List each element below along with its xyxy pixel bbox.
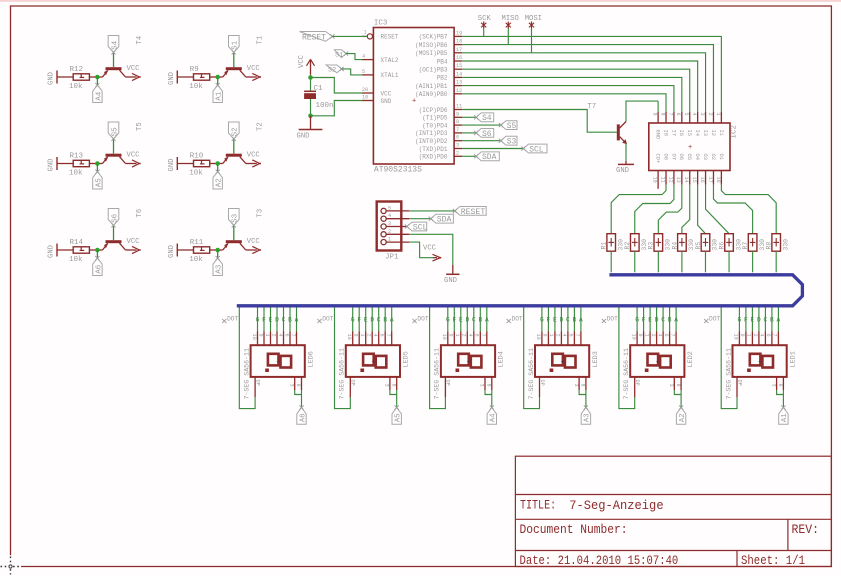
svg-text:D: D	[655, 316, 659, 323]
svg-text:6: 6	[675, 113, 681, 116]
svg-text:E: E	[648, 316, 652, 323]
svg-text:A2: A2	[679, 413, 687, 422]
svg-text:7: 7	[290, 334, 296, 337]
svg-text:10: 10	[535, 334, 541, 340]
svg-text:DP: DP	[350, 380, 356, 386]
svg-text:SCL: SCL	[413, 223, 428, 232]
svg-text:GND: GND	[168, 159, 176, 172]
svg-text:R12: R12	[70, 66, 84, 74]
svg-text:9: 9	[448, 334, 454, 337]
svg-text:E: E	[459, 316, 463, 323]
svg-text:10: 10	[652, 177, 658, 183]
svg-text:S4: S4	[111, 40, 119, 50]
svg-text:8: 8	[777, 384, 783, 387]
svg-text:DP: DP	[539, 380, 545, 386]
svg-text:A: A	[777, 316, 781, 323]
svg-text:S6: S6	[482, 130, 492, 139]
svg-text:(T1)PD5: (T1)PD5	[422, 115, 448, 122]
svg-text:O4: O4	[694, 154, 700, 160]
svg-text:12: 12	[667, 177, 673, 183]
svg-text:1: 1	[548, 334, 554, 337]
svg-text:VCC: VCC	[247, 238, 261, 246]
svg-text:1: 1	[746, 334, 752, 337]
svg-text:R1: R1	[601, 242, 608, 250]
svg-text:7-SEG SA56-11: 7-SEG SA56-11	[528, 348, 535, 399]
svg-text:F: F	[262, 316, 266, 323]
svg-text:8: 8	[456, 119, 459, 125]
svg-text:10: 10	[733, 334, 739, 340]
svg-text:E: E	[751, 316, 755, 323]
svg-text:F: F	[357, 316, 361, 323]
svg-text:+: +	[276, 359, 279, 365]
svg-text:B: B	[478, 316, 482, 323]
svg-text:R4: R4	[671, 242, 678, 250]
svg-text:7: 7	[772, 334, 778, 337]
svg-text:VCC: VCC	[247, 65, 261, 73]
svg-text:GND: GND	[381, 98, 392, 105]
svg-text:(INT0)PD2: (INT0)PD2	[415, 138, 448, 145]
svg-text:2: 2	[752, 334, 758, 337]
svg-text:C: C	[661, 316, 665, 323]
svg-text:4: 4	[372, 334, 378, 337]
svg-text:1: 1	[454, 334, 460, 337]
svg-text:11: 11	[456, 104, 462, 110]
svg-text:C: C	[764, 316, 768, 323]
svg-text:A6: A6	[299, 413, 307, 422]
svg-text:TITLE:: TITLE:	[520, 498, 556, 513]
svg-text:3: 3	[384, 384, 390, 387]
svg-text:9: 9	[456, 111, 459, 117]
svg-text:2: 2	[707, 113, 713, 116]
svg-text:A6: A6	[95, 264, 103, 274]
svg-text:DOT: DOT	[512, 315, 523, 322]
svg-text:6: 6	[663, 334, 669, 337]
svg-text:T2: T2	[256, 122, 264, 131]
svg-text:7: 7	[667, 113, 673, 116]
svg-text:DP: DP	[445, 380, 451, 386]
svg-text:S4: S4	[482, 114, 492, 123]
svg-text:SCK: SCK	[478, 15, 492, 23]
svg-text:6: 6	[568, 334, 574, 337]
svg-text:16: 16	[699, 177, 705, 183]
svg-text:+: +	[758, 359, 761, 365]
svg-text:+: +	[656, 359, 659, 365]
svg-text:4: 4	[277, 334, 283, 337]
svg-text:B: B	[573, 316, 577, 323]
svg-text:R6: R6	[718, 242, 725, 250]
svg-text:B: B	[668, 316, 672, 323]
svg-text:I6: I6	[678, 130, 684, 136]
svg-text:DP: DP	[634, 380, 640, 386]
svg-text:10: 10	[362, 95, 368, 101]
svg-text:GND: GND	[48, 159, 56, 172]
svg-text:XTAL1: XTAL1	[381, 72, 399, 79]
svg-text:(INT1)PD3: (INT1)PD3	[415, 130, 448, 137]
svg-text:S2: S2	[232, 127, 240, 137]
svg-text:C: C	[566, 316, 570, 323]
svg-text:10: 10	[346, 334, 352, 340]
svg-text:O7: O7	[670, 154, 676, 160]
svg-text:LED5: LED5	[403, 351, 411, 367]
svg-text:S1: S1	[232, 40, 240, 50]
svg-text:10k: 10k	[189, 170, 203, 178]
svg-text:1: 1	[364, 30, 367, 36]
svg-text:VCC: VCC	[127, 238, 141, 246]
svg-text:I5: I5	[686, 130, 692, 136]
svg-text:7-SEG SA56-11: 7-SEG SA56-11	[623, 348, 630, 399]
svg-text:A4: A4	[95, 91, 103, 101]
svg-text:I4: I4	[694, 130, 700, 136]
svg-text:D: D	[275, 316, 279, 323]
svg-text:5: 5	[388, 205, 391, 211]
svg-text:R13: R13	[70, 153, 84, 161]
svg-text:7: 7	[480, 334, 486, 337]
svg-text:R7: R7	[742, 242, 749, 250]
svg-text:E: E	[269, 316, 273, 323]
svg-text:(ICP)PD6: (ICP)PD6	[419, 107, 448, 114]
svg-text:R8: R8	[766, 242, 773, 250]
svg-text:VCC: VCC	[247, 152, 261, 160]
svg-text:7-SEG SA56-11: 7-SEG SA56-11	[243, 348, 250, 399]
svg-text:+: +	[412, 98, 416, 106]
svg-text:T7: T7	[588, 103, 597, 111]
svg-text:T5: T5	[136, 122, 144, 131]
svg-text:S6: S6	[111, 213, 119, 223]
svg-text:2: 2	[456, 150, 459, 156]
svg-text:R2: R2	[624, 242, 631, 250]
svg-text:7-SEG SA56-11: 7-SEG SA56-11	[434, 348, 441, 399]
svg-text:6: 6	[283, 334, 289, 337]
svg-text:LED1: LED1	[789, 351, 797, 367]
svg-text:DP: DP	[736, 380, 742, 386]
svg-text:10k: 10k	[69, 170, 83, 178]
svg-text:E: E	[553, 316, 557, 323]
svg-text:1: 1	[264, 334, 270, 337]
svg-text:A: A	[579, 316, 583, 323]
svg-text:R11: R11	[190, 239, 204, 247]
svg-text:C: C	[282, 316, 286, 323]
svg-text:8: 8	[486, 384, 492, 387]
svg-text:S1: S1	[335, 51, 343, 59]
svg-text:DP: DP	[254, 380, 260, 386]
svg-text:A5: A5	[95, 178, 103, 188]
svg-text:G: G	[540, 316, 544, 323]
svg-text:E: E	[364, 316, 368, 323]
svg-text:PB2: PB2	[437, 75, 448, 82]
svg-text:7: 7	[669, 334, 675, 337]
svg-text:(AIN1)PB1: (AIN1)PB1	[415, 83, 448, 90]
svg-text:7-SEG SA56-11: 7-SEG SA56-11	[339, 348, 346, 399]
svg-text:RESET: RESET	[302, 33, 326, 42]
svg-text:O2: O2	[710, 154, 716, 160]
svg-text:A3: A3	[216, 264, 224, 274]
svg-text:(OC1)PB3: (OC1)PB3	[419, 67, 448, 74]
svg-text:8: 8	[295, 384, 301, 387]
svg-text:A: A	[390, 316, 394, 323]
svg-text:DOT: DOT	[227, 315, 238, 322]
svg-text:20: 20	[362, 87, 368, 93]
svg-text:O1: O1	[718, 154, 724, 160]
svg-text:17: 17	[707, 177, 713, 183]
svg-text:6: 6	[474, 334, 480, 337]
svg-text:O8: O8	[662, 154, 668, 160]
svg-text:SCL: SCL	[529, 145, 544, 154]
svg-text:(TXD)PD1: (TXD)PD1	[419, 146, 448, 153]
svg-text:A: A	[485, 316, 489, 323]
svg-text:Date: 21.04.2010 15:07:40: Date: 21.04.2010 15:07:40	[520, 553, 679, 568]
svg-text:F: F	[642, 316, 646, 323]
svg-text:9: 9	[542, 334, 548, 337]
svg-text:IC2: IC2	[731, 125, 739, 139]
svg-text:GND: GND	[655, 130, 661, 140]
svg-text:Sheet: 1/1: Sheet: 1/1	[741, 553, 805, 568]
svg-text:GND: GND	[168, 72, 176, 85]
svg-text:IC3: IC3	[374, 20, 388, 28]
svg-text:3: 3	[479, 384, 485, 387]
svg-text:2: 2	[555, 334, 561, 337]
svg-text:10k: 10k	[189, 256, 203, 264]
svg-text:RESET: RESET	[381, 34, 399, 41]
svg-text:PB4: PB4	[437, 58, 448, 65]
svg-text:VCC: VCC	[423, 245, 437, 253]
svg-text:12: 12	[456, 88, 462, 94]
svg-text:3: 3	[770, 384, 776, 387]
svg-text:G: G	[635, 316, 639, 323]
svg-text:18: 18	[456, 39, 462, 45]
svg-text:B: B	[288, 316, 292, 323]
svg-text:C1: C1	[314, 85, 324, 93]
svg-text:I7: I7	[670, 130, 676, 136]
svg-text:JP1: JP1	[385, 254, 399, 262]
svg-text:S3: S3	[507, 138, 517, 147]
svg-text:O6: O6	[678, 154, 684, 160]
svg-text:13: 13	[456, 80, 462, 86]
svg-text:14: 14	[456, 71, 462, 77]
svg-text:GND: GND	[48, 72, 56, 85]
svg-text:F: F	[744, 316, 748, 323]
svg-text:MISO: MISO	[502, 15, 519, 23]
svg-text:8: 8	[675, 384, 681, 387]
svg-text:GND: GND	[616, 167, 629, 175]
svg-text:6: 6	[379, 334, 385, 337]
svg-text:(SCK)PB7: (SCK)PB7	[419, 34, 448, 41]
svg-text:O5: O5	[686, 154, 692, 160]
svg-text:GND: GND	[48, 245, 56, 258]
svg-text:C: C	[377, 316, 381, 323]
svg-text:9: 9	[353, 334, 359, 337]
svg-text:14: 14	[683, 177, 689, 183]
svg-text:Document Number:: Document Number:	[520, 522, 628, 537]
svg-text:LED2: LED2	[687, 351, 695, 367]
svg-text:S5: S5	[111, 127, 119, 137]
svg-text:T6: T6	[136, 209, 144, 218]
svg-text:I1: I1	[718, 130, 724, 136]
svg-text:REV:: REV:	[792, 522, 820, 537]
svg-text:LED6: LED6	[307, 351, 315, 367]
svg-text:A1: A1	[781, 413, 789, 422]
svg-text:+: +	[688, 144, 692, 152]
svg-text:3: 3	[668, 384, 674, 387]
svg-text:F: F	[547, 316, 551, 323]
svg-text:1: 1	[715, 113, 721, 116]
svg-text:10: 10	[630, 334, 636, 340]
svg-text:GND: GND	[168, 245, 176, 258]
svg-text:DOT: DOT	[709, 315, 720, 322]
svg-text:16: 16	[456, 55, 462, 61]
svg-text:R9: R9	[190, 66, 199, 74]
svg-text:100n: 100n	[316, 102, 334, 110]
svg-text:I2: I2	[710, 130, 716, 136]
svg-text:AT90S2313S: AT90S2313S	[374, 166, 422, 175]
svg-text:S2: S2	[328, 67, 336, 75]
svg-text:B: B	[383, 316, 387, 323]
svg-text:3: 3	[388, 221, 391, 227]
svg-text:15: 15	[691, 177, 697, 183]
svg-text:DOT: DOT	[322, 315, 333, 322]
svg-text:2: 2	[461, 334, 467, 337]
svg-text:A3: A3	[584, 413, 592, 422]
svg-text:10: 10	[441, 334, 447, 340]
svg-text:4: 4	[388, 213, 391, 219]
svg-text:T4: T4	[136, 36, 144, 45]
svg-text:7-Seg-Anzeige: 7-Seg-Anzeige	[569, 498, 663, 513]
svg-text:+: +	[467, 359, 470, 365]
svg-text:7: 7	[456, 127, 459, 133]
svg-text:DOT: DOT	[607, 315, 618, 322]
svg-text:1: 1	[388, 237, 391, 243]
svg-text:LED3: LED3	[592, 351, 600, 367]
svg-text:G: G	[446, 316, 450, 323]
svg-text:2: 2	[270, 334, 276, 337]
svg-text:3: 3	[288, 384, 294, 387]
svg-text:RESET: RESET	[461, 208, 486, 217]
svg-text:11: 11	[659, 177, 665, 183]
svg-text:R3: R3	[648, 242, 655, 250]
svg-text:4: 4	[561, 334, 567, 337]
svg-text:5: 5	[362, 69, 365, 75]
svg-text:18: 18	[715, 177, 721, 183]
svg-text:D: D	[560, 316, 564, 323]
svg-text:G: G	[351, 316, 355, 323]
svg-text:6: 6	[765, 334, 771, 337]
svg-text:9: 9	[652, 113, 658, 116]
svg-text:D: D	[465, 316, 469, 323]
svg-text:4: 4	[362, 54, 365, 60]
svg-text:T3: T3	[256, 209, 264, 218]
svg-text:A4: A4	[490, 413, 498, 422]
svg-text:I8: I8	[662, 130, 668, 136]
svg-text:VCC: VCC	[127, 152, 141, 160]
svg-text:17: 17	[456, 47, 462, 53]
svg-text:G: G	[738, 316, 742, 323]
svg-text:8: 8	[390, 384, 396, 387]
svg-text:3: 3	[699, 113, 705, 116]
svg-text:VCC: VCC	[127, 65, 141, 73]
svg-text:13: 13	[675, 177, 681, 183]
svg-text:T1: T1	[256, 36, 264, 45]
svg-text:GND: GND	[297, 133, 310, 141]
svg-text:8: 8	[580, 384, 586, 387]
svg-text:A1: A1	[216, 91, 224, 101]
svg-text:10k: 10k	[69, 256, 83, 264]
svg-text:3: 3	[573, 384, 579, 387]
svg-text:7: 7	[574, 334, 580, 337]
svg-text:B: B	[770, 316, 774, 323]
svg-text:4: 4	[759, 334, 765, 337]
svg-text:(RXD)PD0: (RXD)PD0	[419, 154, 448, 161]
svg-text:10k: 10k	[69, 83, 83, 91]
svg-text:S3: S3	[232, 213, 240, 223]
svg-text:(MOSI)PB5: (MOSI)PB5	[415, 50, 448, 57]
svg-text:SDA: SDA	[482, 153, 497, 162]
svg-text:D: D	[757, 316, 761, 323]
svg-text:R14: R14	[70, 239, 84, 247]
svg-text:9: 9	[257, 334, 263, 337]
svg-text:6: 6	[456, 135, 459, 141]
svg-text:330: 330	[782, 239, 789, 251]
svg-text:9: 9	[739, 334, 745, 337]
svg-text:C: C	[472, 316, 476, 323]
svg-text:1: 1	[359, 334, 365, 337]
svg-text:2: 2	[650, 334, 656, 337]
svg-text:O3: O3	[702, 154, 708, 160]
svg-text:A5: A5	[395, 413, 403, 422]
svg-text:4: 4	[691, 113, 697, 116]
svg-text:4: 4	[656, 334, 662, 337]
svg-text:3: 3	[456, 143, 459, 149]
svg-text:2: 2	[388, 229, 391, 235]
svg-text:F: F	[452, 316, 456, 323]
svg-text:VCC: VCC	[298, 54, 306, 68]
svg-text:1: 1	[643, 334, 649, 337]
svg-text:7: 7	[385, 334, 391, 337]
svg-text:XTAL2: XTAL2	[381, 57, 399, 64]
svg-text:DOT: DOT	[417, 315, 428, 322]
svg-text:R5: R5	[695, 242, 702, 250]
svg-text:4: 4	[467, 334, 473, 337]
svg-text:19: 19	[456, 30, 462, 36]
svg-text:(AIN0)PB0: (AIN0)PB0	[415, 91, 448, 98]
svg-text:A: A	[674, 316, 678, 323]
svg-text:10k: 10k	[189, 83, 203, 91]
svg-text:(MISO)PB6: (MISO)PB6	[415, 42, 448, 49]
svg-text:9: 9	[637, 334, 643, 337]
svg-text:G: G	[256, 316, 260, 323]
svg-text:10: 10	[251, 334, 257, 340]
svg-text:5: 5	[683, 113, 689, 116]
svg-text:8: 8	[659, 113, 665, 116]
svg-text:+: +	[372, 359, 375, 365]
svg-text:A2: A2	[216, 178, 224, 188]
svg-text:7-SEG SA56-11: 7-SEG SA56-11	[725, 348, 732, 399]
svg-text:S5: S5	[507, 122, 517, 131]
svg-text:2: 2	[366, 334, 372, 337]
svg-text:LED4: LED4	[498, 351, 506, 367]
svg-text:GND: GND	[444, 277, 457, 285]
svg-text:+: +	[561, 359, 564, 365]
svg-text:R10: R10	[190, 153, 204, 161]
svg-text:MOSI: MOSI	[525, 15, 542, 23]
svg-text:SDA: SDA	[437, 216, 452, 225]
svg-text:D: D	[370, 316, 374, 323]
svg-text:A: A	[295, 316, 299, 323]
svg-text:CD+: CD+	[655, 154, 661, 164]
svg-text:(T0)PD4: (T0)PD4	[422, 122, 448, 129]
svg-text:I3: I3	[702, 130, 708, 136]
svg-text:VCC: VCC	[381, 90, 392, 97]
svg-text:15: 15	[456, 63, 462, 69]
